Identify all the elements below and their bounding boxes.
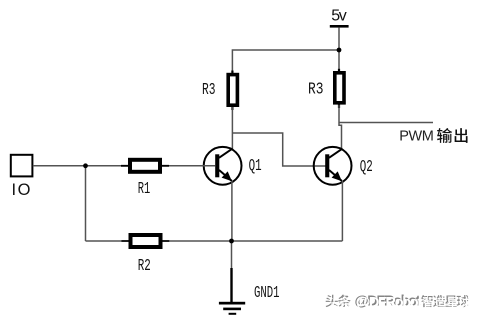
wire R3 right to PWM node bbox=[338, 105, 340, 123]
ground symbol GND1 bbox=[219, 268, 245, 315]
node ground junction bbox=[229, 239, 234, 244]
node input junction bbox=[83, 163, 88, 168]
wire PWM node to Q2 collector bbox=[339, 123, 342, 150]
svg-text:R2: R2 bbox=[138, 256, 151, 275]
wire top rail bbox=[232, 50, 339, 73]
wire ground lead bbox=[231, 241, 233, 269]
wire R1 to Q1 base bbox=[169, 165, 215, 167]
resistor R3 (left) bbox=[228, 71, 237, 111]
transistor Q2 bbox=[314, 147, 352, 185]
node rail junction bbox=[337, 48, 342, 53]
svg-text:Q2: Q2 bbox=[360, 157, 373, 176]
svg-text:@DFRobot: @DFRobot bbox=[356, 295, 422, 311]
svg-text:R3: R3 bbox=[308, 79, 324, 98]
svg-text:GND1: GND1 bbox=[254, 283, 280, 302]
label 输出 bbox=[437, 128, 467, 143]
svg-text:5v: 5v bbox=[331, 8, 347, 25]
wire down to R2 bbox=[86, 240, 123, 242]
IO pad bbox=[11, 155, 33, 177]
wire R3 left to Q1 collector bbox=[231, 107, 233, 150]
resistor R2 bbox=[122, 235, 170, 247]
svg-text:PWM: PWM bbox=[399, 129, 434, 145]
wire Q1 emitter down bbox=[231, 181, 233, 241]
svg-text:R1: R1 bbox=[138, 179, 151, 198]
svg-text:Q1: Q1 bbox=[249, 156, 262, 175]
wire Q2 emitter down bbox=[341, 181, 343, 241]
wire PWM output bbox=[339, 122, 433, 124]
resistor R1 bbox=[121, 160, 169, 172]
resistor R3 (right) bbox=[335, 69, 344, 108]
wire input node down bbox=[85, 166, 87, 241]
wire rail to R3 right bbox=[338, 50, 340, 72]
power bar symbol bbox=[330, 25, 349, 28]
wire R2 to emitter bus bbox=[169, 240, 342, 242]
watermark 头条@DFRobot智造星球 bbox=[326, 293, 471, 311]
transistor Q1 bbox=[204, 147, 242, 185]
wire IO to input node bbox=[33, 165, 86, 167]
wire Q1 collector to Q2 base bbox=[232, 133, 325, 166]
wire power stub bbox=[338, 28, 340, 50]
wire node to R1 bbox=[86, 165, 123, 167]
svg-text:R3: R3 bbox=[202, 80, 216, 99]
svg-text:IO: IO bbox=[12, 181, 31, 199]
